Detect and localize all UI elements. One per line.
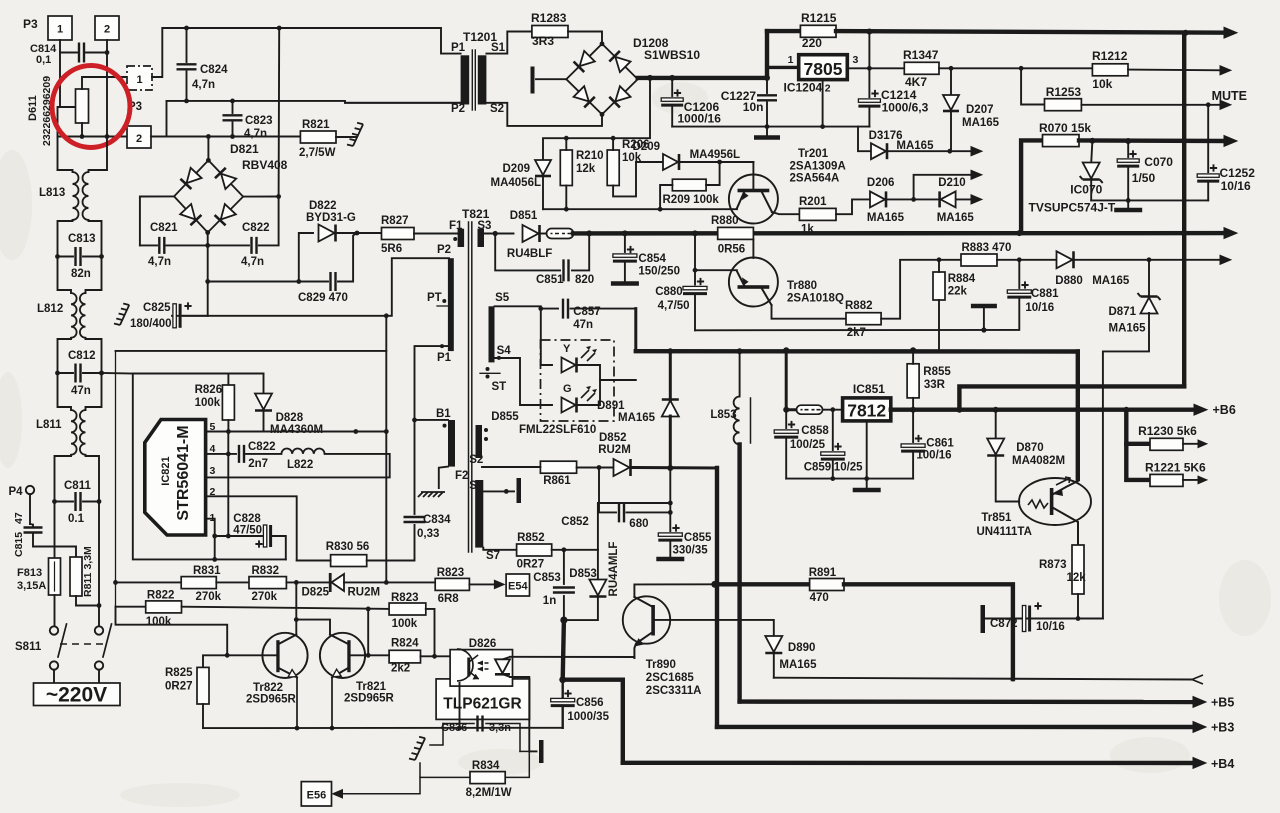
label D209a type (491, 177, 542, 189)
svg-text:D828: D828 (276, 412, 304, 424)
label Tr880 (787, 280, 817, 292)
wire E56 line (341, 777, 420, 793)
svg-text:R832: R832 (252, 565, 280, 577)
svg-text:STR56041-M: STR56041-M (175, 425, 192, 520)
svg-text:MA165: MA165 (867, 212, 905, 224)
wire R827 to F1 (414, 233, 458, 235)
label C853 (533, 572, 561, 584)
resistor R824 (389, 650, 420, 663)
label D821 (230, 142, 259, 156)
label C852 value (629, 518, 648, 530)
label IC070 (1070, 183, 1102, 197)
capacitor C872 electrolytic (1022, 602, 1041, 631)
thick node C853 (560, 617, 567, 624)
resistor R834 (470, 772, 505, 784)
wire Tr822 collector riser (295, 582, 297, 634)
svg-text:7805: 7805 (804, 59, 843, 79)
label R070 (1039, 121, 1091, 135)
svg-text:R882: R882 (845, 300, 873, 312)
svg-text:C851: C851 (536, 274, 564, 286)
resistor R880 (718, 227, 754, 239)
label D855 (491, 411, 519, 423)
label C836 (441, 722, 511, 734)
label C823 (245, 115, 273, 127)
wire rails into L813 (58, 137, 108, 173)
svg-text:Y: Y (563, 343, 571, 355)
wire D3176 to arrow (888, 149, 972, 154)
wire S2 loop (486, 103, 602, 126)
label T1201 S2 (490, 103, 504, 115)
thick drop to B3 (715, 584, 719, 727)
label F1 (449, 220, 463, 241)
label R824 (391, 638, 419, 650)
T821 winding F1 bar (458, 229, 465, 247)
ground at C854 (611, 281, 639, 286)
label R1283 value (532, 34, 554, 48)
label C854 (638, 253, 666, 265)
wire 7812 input (786, 350, 796, 409)
resistor R873 (1072, 545, 1084, 594)
svg-text:2k2: 2k2 (391, 663, 410, 675)
label R883 (962, 242, 1012, 254)
capacitor C861 electrolytic (901, 410, 925, 479)
wire lower rail right (167, 134, 301, 139)
svg-text:4,7n: 4,7n (244, 128, 267, 140)
label C811 (64, 480, 91, 492)
label T1201 P2 (451, 103, 465, 115)
svg-text:C812: C812 (68, 350, 96, 362)
capacitor C1206 electrolytic (661, 78, 683, 127)
label C881 (1031, 288, 1059, 300)
capacitor C852 (599, 468, 673, 523)
arrow MUTE (1220, 100, 1231, 109)
label IC1204 (784, 81, 823, 95)
label Tr821 (356, 681, 387, 693)
label D611 (27, 95, 39, 121)
wire R201 to D206 (836, 199, 869, 214)
label C881 value (1025, 302, 1054, 314)
wire pin4 line (206, 452, 236, 457)
svg-text:8,2M/1W: 8,2M/1W (466, 787, 512, 799)
svg-text:R821: R821 (302, 119, 330, 131)
capacitor C811 (52, 492, 101, 511)
transistor Tr880 (729, 258, 778, 307)
svg-text:3R3: 3R3 (532, 34, 554, 48)
label C828 (233, 513, 261, 525)
emitter rail 5V (543, 208, 737, 210)
T821 winding P bar (448, 258, 454, 351)
svg-text:R861: R861 (543, 475, 571, 487)
svg-text:D210: D210 (938, 177, 966, 189)
opto LED (495, 657, 510, 677)
svg-text:100k: 100k (392, 618, 418, 630)
label C872 (990, 618, 1018, 630)
label Tr890 type2 (646, 685, 702, 697)
svg-text:270k: 270k (196, 591, 222, 603)
svg-text:MA4956L: MA4956L (690, 149, 741, 161)
label D825 (302, 587, 330, 599)
label F813 (17, 567, 42, 579)
wire MUTE (1081, 102, 1222, 107)
svg-text:E54: E54 (508, 581, 528, 593)
arrow mid1 (971, 170, 982, 179)
svg-text:S7: S7 (486, 550, 500, 562)
svg-text:R880: R880 (711, 215, 739, 227)
svg-text:R1221 5K6: R1221 5K6 (1145, 461, 1206, 475)
fuse F813 (49, 558, 61, 595)
wire Tr890 emitter rail (510, 656, 634, 658)
svg-text:D206: D206 (867, 177, 895, 189)
svg-text:PT: PT (427, 292, 442, 304)
connector P3b pin 2 box (127, 126, 151, 148)
label D851 type (507, 248, 552, 260)
svg-text:10/16: 10/16 (1025, 302, 1054, 314)
label D851 (510, 210, 538, 222)
label C822 (248, 441, 276, 453)
label Tr880 type (787, 293, 844, 305)
svg-text:C852: C852 (561, 516, 589, 528)
label Tr201 type1 (790, 161, 846, 173)
svg-text:P2: P2 (437, 244, 451, 256)
svg-text:D821: D821 (230, 142, 259, 156)
label D611 code (41, 76, 53, 146)
svg-text:MA165: MA165 (896, 140, 934, 152)
arrow mid2 (971, 195, 982, 204)
svg-text:C828: C828 (233, 513, 261, 525)
svg-text:C854: C854 (638, 253, 666, 265)
capacitor C813 (55, 247, 104, 266)
fusible link on bus A (540, 229, 577, 239)
diode D891 (662, 351, 679, 468)
svg-text:2k7: 2k7 (847, 327, 866, 339)
label R884 value (948, 286, 968, 298)
label R210 value (576, 163, 596, 175)
label C814 (30, 43, 57, 55)
regulator 7805 box (799, 55, 848, 80)
wire Tr890 base rail (655, 620, 774, 636)
bus R891 right (844, 584, 1013, 679)
capacitor C857 (541, 299, 636, 319)
label R855 value (924, 379, 946, 391)
bus R891 (715, 582, 810, 586)
svg-text:D852: D852 (599, 432, 627, 444)
svg-text:2SC3311A: 2SC3311A (646, 685, 702, 697)
opto transistor emitter pin (459, 683, 461, 728)
arrow B4 (1193, 758, 1206, 769)
resistor R891 (810, 579, 844, 591)
svg-text:1000/6,3: 1000/6,3 (882, 101, 929, 115)
inductor L822 (281, 448, 324, 453)
label S2w (469, 454, 483, 466)
label R209 (663, 194, 720, 206)
resistor R206 (607, 138, 619, 185)
label C815 (13, 532, 25, 557)
label R206 value (622, 152, 642, 164)
label D880 type (1092, 275, 1130, 287)
wire rails into L811 (58, 373, 102, 410)
label pin3 (210, 465, 216, 477)
svg-text:R210: R210 (576, 150, 604, 162)
diode D822 (319, 225, 336, 242)
svg-text:100k: 100k (146, 616, 172, 628)
arrow chevron left (1192, 675, 1203, 684)
label D210 type (937, 212, 975, 224)
wire switch to source box (54, 670, 99, 683)
svg-text:R1215: R1215 (801, 11, 837, 25)
chassis hatch at C836 (409, 737, 425, 760)
label C821 value (148, 256, 171, 268)
bridge diode top-right (215, 168, 236, 189)
label Y (563, 343, 571, 355)
resistor R1253 (1045, 99, 1082, 111)
svg-text:2,7/5W: 2,7/5W (299, 147, 336, 159)
bus R1215 to right (836, 29, 1231, 36)
svg-text:R811 3,3M: R811 3,3M (82, 546, 94, 597)
label D1208 type (644, 48, 700, 62)
label R811 (82, 546, 94, 597)
wire pin5 line (207, 429, 389, 434)
svg-text:Tr890: Tr890 (646, 659, 676, 671)
wire Tr880 base (752, 239, 754, 258)
resistor R832 (249, 577, 286, 589)
label R201 value (801, 224, 814, 236)
diode D852 (614, 459, 631, 476)
svg-text:R827: R827 (381, 215, 409, 227)
label C828 value (233, 525, 262, 537)
wire bridge right vertex up (278, 28, 281, 197)
label S6w (469, 480, 483, 492)
svg-text:G: G (563, 383, 572, 395)
arrow R1230 (1198, 440, 1207, 448)
T821 core (469, 222, 472, 552)
bridge diode top-left (180, 168, 201, 189)
svg-text:C815: C815 (13, 532, 25, 557)
bridge D1208 diode tr (609, 51, 630, 72)
wire L811 out (55, 455, 100, 502)
svg-text:R826: R826 (195, 384, 223, 396)
wire bridge to R206 rail (613, 78, 650, 138)
label C811 value (68, 513, 85, 525)
label B6 (1213, 403, 1236, 417)
resistor R827 (382, 228, 415, 240)
svg-text:1/50: 1/50 (1132, 171, 1156, 185)
label C861 (926, 438, 954, 450)
svg-text:MA165: MA165 (937, 212, 975, 224)
svg-text:Tr822: Tr822 (253, 682, 283, 694)
svg-text:2SA1309A: 2SA1309A (790, 161, 846, 173)
label Tr821 type (344, 693, 395, 705)
svg-text:100k: 100k (195, 397, 221, 409)
transformer T1201 secondary bar (478, 55, 487, 104)
label L811 (36, 419, 62, 431)
svg-text:7812: 7812 (847, 401, 886, 421)
wire resistor top to box1 (82, 77, 128, 89)
svg-text:C822: C822 (248, 441, 276, 453)
resistor R1215 (800, 25, 836, 37)
chassis ground at R821 (347, 123, 363, 146)
svg-text:33R: 33R (924, 379, 946, 391)
svg-text:0,1: 0,1 (36, 54, 51, 66)
svg-text:C857: C857 (573, 306, 601, 318)
transistor Tr822 (262, 633, 307, 678)
label D871 (1109, 306, 1137, 318)
svg-text:270k: 270k (252, 591, 278, 603)
label R826 value (195, 397, 221, 409)
chassis at F2 (418, 492, 445, 497)
bus B5 drop (737, 584, 741, 701)
capacitor C814 (60, 43, 109, 63)
label C813 (68, 233, 96, 245)
capacitor C856 electrolytic (551, 680, 575, 728)
arrow into E54 (494, 580, 504, 588)
svg-text:C836: C836 (441, 722, 467, 734)
arrow top bus (1224, 27, 1237, 38)
arrow R1212 (1220, 66, 1231, 75)
svg-text:10k: 10k (1092, 77, 1112, 91)
T821 winding B1 bar (443, 420, 456, 467)
svg-text:Tr201: Tr201 (798, 148, 829, 160)
main DC bus from bridge (638, 75, 767, 81)
label G (563, 383, 572, 395)
resistor R830 (331, 555, 367, 567)
choke L811 (71, 410, 86, 455)
svg-text:47: 47 (13, 512, 25, 524)
capacitor C823 (223, 101, 243, 137)
svg-text:D826: D826 (469, 638, 497, 650)
source ~220V box (34, 683, 121, 706)
label Tr822 (253, 682, 283, 694)
connector P3 pin 1 box (48, 16, 72, 40)
wire 7812 pin2 (866, 421, 868, 487)
svg-text:L812: L812 (37, 303, 63, 315)
node P3 label (23, 17, 38, 31)
svg-text:2n7: 2n7 (248, 458, 268, 470)
svg-text:MA165: MA165 (962, 117, 1000, 129)
D855 diode Y (562, 358, 601, 381)
thick drop to C856 (559, 620, 566, 683)
wire F2 to chassis (439, 467, 448, 488)
svg-text:MA165: MA165 (779, 659, 817, 671)
thick bus B (636, 347, 1078, 354)
wire R1347 out (939, 66, 1092, 71)
label R821 (302, 119, 330, 131)
svg-text:C813: C813 (68, 233, 96, 245)
wire D209a to emitter rail (542, 176, 544, 209)
bus R1215 top (767, 29, 800, 33)
wire D880 out (1074, 257, 1222, 262)
label R823a (437, 567, 465, 579)
svg-text:2SD965R: 2SD965R (344, 693, 395, 705)
label D3176 (869, 130, 903, 142)
wire left rail to resistor (60, 53, 75, 108)
label D206 type (867, 212, 905, 224)
label Tr201 (798, 148, 829, 160)
svg-text:+B6: +B6 (1213, 403, 1236, 417)
capacitor C859 electrolytic (821, 410, 845, 479)
label R210 (576, 150, 604, 162)
ground at C1227 (754, 127, 780, 138)
label R830 (326, 541, 369, 553)
capacitor C824 (177, 26, 197, 101)
svg-text:RU4BLF: RU4BLF (507, 248, 552, 260)
svg-text:4,7n: 4,7n (192, 79, 215, 91)
label R827 value (381, 243, 402, 255)
svg-text:R884: R884 (948, 273, 976, 285)
svg-text:3,3n: 3,3n (489, 722, 511, 734)
resistor R823b (389, 603, 426, 615)
diode D870 (987, 410, 1019, 502)
wire R831 rail (113, 580, 181, 585)
label R834 value (466, 787, 512, 799)
diode D206 (870, 191, 886, 207)
svg-text:C859: C859 (804, 462, 832, 474)
capacitor C1227 (757, 75, 777, 127)
diode D210 (940, 191, 956, 207)
switch S811 coupling dashed (60, 643, 104, 645)
label R825 value (165, 681, 193, 693)
label D852 (599, 432, 627, 444)
svg-text:R1347: R1347 (903, 48, 939, 62)
capacitor C815 (24, 524, 55, 547)
wire R209 left (658, 185, 673, 212)
svg-text:D851: D851 (510, 210, 538, 222)
long riser C825-D825 (384, 313, 389, 582)
label ST (480, 367, 506, 393)
opto phototransistor (457, 649, 479, 681)
label R1212 value (1092, 77, 1112, 91)
svg-text:P2: P2 (451, 103, 465, 115)
label R884 (948, 273, 976, 285)
label R1212 (1092, 49, 1128, 63)
label D210 (938, 177, 966, 189)
svg-text:C811: C811 (64, 480, 91, 492)
label D871 type (1109, 323, 1147, 335)
label D826 (469, 638, 497, 650)
svg-text:C834: C834 (423, 514, 451, 526)
label ~220V (46, 684, 107, 707)
wire S7 to R852 (483, 548, 516, 550)
svg-text:MA165: MA165 (618, 412, 656, 424)
label R852 value (517, 559, 545, 571)
svg-text:4,7n: 4,7n (148, 256, 171, 268)
label D207 type (962, 117, 1000, 129)
wire R070 out (1079, 138, 1224, 144)
label R880 value (718, 244, 746, 256)
optocoupler label box (436, 679, 529, 720)
main bus A (573, 230, 1229, 236)
label C070 (1144, 155, 1173, 169)
label D825 type (348, 587, 381, 599)
svg-text:0,33: 0,33 (417, 528, 439, 540)
wire R811 bottom (76, 596, 101, 608)
svg-text:2: 2 (825, 83, 831, 95)
label B3 (1211, 721, 1234, 735)
svg-text:IC070: IC070 (1070, 183, 1102, 197)
label D3176 type (896, 140, 934, 152)
choke L813 (73, 172, 89, 220)
label D853 (569, 568, 597, 580)
wire R822 to R823b (182, 607, 390, 612)
capacitor C880 electrolytic (683, 233, 707, 330)
wire R209 right (706, 162, 720, 185)
svg-text:Tr821: Tr821 (356, 681, 387, 693)
label R821 value (299, 147, 336, 159)
label R822 value (146, 616, 172, 628)
svg-text:5: 5 (210, 421, 216, 433)
wire R210/D209 top rail (543, 136, 615, 161)
wire D206 to D210 (887, 197, 939, 202)
svg-text:+B5: +B5 (1211, 696, 1234, 710)
